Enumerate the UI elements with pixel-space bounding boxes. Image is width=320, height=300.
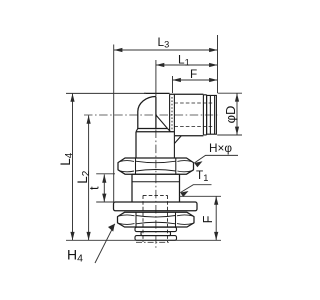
- spacer ring: [141, 232, 171, 236]
- H4 leader arrow: [108, 224, 115, 232]
- hex H facet left: [135, 158, 137, 174]
- cap collar: [203, 95, 206, 135]
- elbow top edge: [144, 92, 170, 94]
- F left extension: [172, 76, 174, 93]
- elbow bottom edge: [138, 128, 168, 130]
- shoulder step left: [136, 129, 138, 132]
- dimension t line: [103, 174, 105, 202]
- svg-text:H×φ: H×φ: [209, 141, 232, 155]
- HxPhi leader arrow: [194, 161, 202, 167]
- washer 1: [135, 227, 177, 231]
- hex H4 facet right: [175, 212, 177, 227]
- phiD top extension: [218, 92, 242, 94]
- hex H left facet arcs: [120, 161, 135, 172]
- F top arrows: [173, 78, 181, 82]
- dimension L3 line: [114, 49, 218, 51]
- release ring ridge 2: [214, 95, 216, 134]
- hidden bore lower: [174, 126, 215, 128]
- svg-text:F: F: [190, 67, 197, 81]
- hex H4 facet left: [135, 212, 137, 227]
- elbow body boundary: [169, 94, 171, 132]
- hex H right facet arcs: [177, 161, 192, 172]
- hex H4 left facet lens: [119, 215, 135, 225]
- HxPhi leader: [194, 155, 238, 163]
- release ring: [207, 95, 217, 134]
- body ring line: [173, 94, 175, 158]
- L4 top extension: [66, 92, 146, 94]
- hex nut H: [118, 158, 194, 174]
- svg-text:φD: φD: [223, 106, 238, 124]
- right extension L3 L1 F: [217, 35, 219, 93]
- dimension L2 line: [88, 115, 90, 240]
- dimension L4 line: [72, 93, 74, 240]
- T1 leader: [180, 185, 211, 193]
- dimension L1 line: [156, 64, 218, 66]
- washer 2: [135, 236, 177, 241]
- L1 arrows: [156, 63, 164, 67]
- T1 leader arrow: [180, 191, 188, 197]
- shoulder step right: [168, 129, 171, 132]
- elbow chamfer diagonal: [156, 115, 168, 129]
- L1 left extension: [155, 60, 157, 96]
- collar knurl dotted line: [171, 97, 173, 132]
- elbow outline: [138, 97, 156, 129]
- L3 left extension: [113, 45, 115, 204]
- shoulder block left edge: [135, 132, 137, 158]
- hidden bore upper: [174, 102, 215, 104]
- shoulder top edge: [136, 131, 174, 133]
- L3 arrows: [114, 48, 122, 52]
- release ring ridge 1: [209, 95, 211, 134]
- dimension F right line: [215, 196, 217, 240]
- horizontal centerline: [84, 114, 220, 116]
- dimension F top line: [173, 79, 218, 81]
- phiD arrows: [235, 93, 239, 101]
- L4 arrows: [70, 93, 74, 101]
- t top extension: [96, 173, 115, 175]
- web diagonal: [174, 136, 181, 144]
- elbow inner vertical edge: [155, 97, 157, 129]
- hex H4 right facet lens: [177, 215, 193, 225]
- hex H mid facet arcs: [136, 161, 176, 171]
- hex H facet right: [175, 158, 177, 174]
- body top edge: [170, 93, 204, 95]
- phiD dimension line: [236, 93, 238, 135]
- L2 arrows: [87, 115, 91, 123]
- panel plate: [114, 202, 198, 211]
- phiD bottom extension: [217, 134, 242, 136]
- hidden thread hole: [143, 195, 168, 242]
- svg-text:F: F: [201, 215, 215, 223]
- center cross mark: [136, 241, 170, 243]
- bottom shared extension: [66, 239, 221, 241]
- vertical centerline: [155, 130, 157, 248]
- svg-text:t: t: [87, 186, 102, 190]
- F right arrows: [214, 196, 218, 204]
- barrel collar line: [132, 181, 180, 183]
- locknut H4: [118, 212, 195, 227]
- t arrows: [102, 174, 106, 182]
- threaded barrel: [132, 174, 180, 202]
- H4 leader: [95, 224, 115, 263]
- F right top extension: [180, 195, 222, 197]
- body bottom edge: [175, 135, 203, 137]
- hex H4 mid facet arcs: [136, 216, 176, 224]
- t bottom extension: [96, 201, 114, 203]
- barrel seat line: [132, 173, 180, 175]
- arrowheads: [70, 48, 239, 240]
